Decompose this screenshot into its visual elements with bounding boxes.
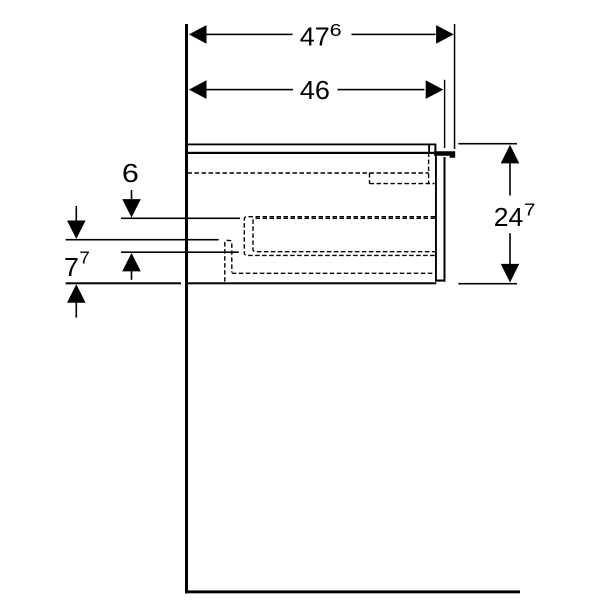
svg-text:7: 7	[524, 199, 536, 219]
svg-text:24: 24	[494, 202, 524, 232]
svg-text:46: 46	[300, 75, 330, 105]
svg-text:6: 6	[330, 20, 342, 40]
svg-text:7: 7	[64, 252, 79, 282]
svg-text:6: 6	[122, 158, 139, 188]
svg-text:47: 47	[300, 22, 330, 52]
svg-text:7: 7	[79, 247, 90, 267]
